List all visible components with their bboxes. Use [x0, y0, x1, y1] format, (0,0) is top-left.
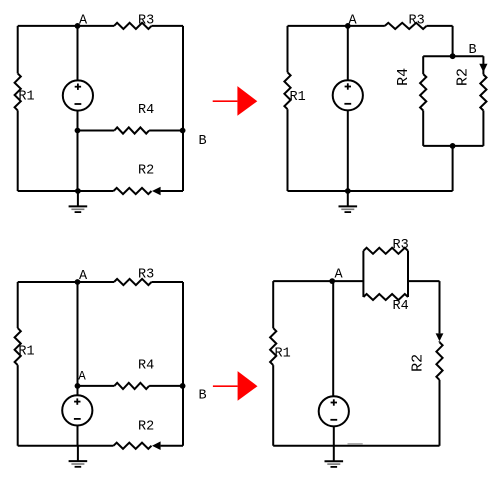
svg-text:B: B [199, 134, 207, 149]
svg-text:R1: R1 [275, 347, 291, 362]
svg-text:R3: R3 [409, 14, 425, 29]
svg-text:A: A [79, 269, 88, 284]
svg-text:R4: R4 [393, 299, 409, 314]
svg-text:A: A [335, 268, 344, 283]
svg-text:A: A [79, 13, 88, 28]
svg-text:R1: R1 [18, 90, 34, 105]
svg-text:R3: R3 [138, 268, 154, 283]
svg-text:R2: R2 [410, 354, 427, 372]
svg-text:R2: R2 [455, 68, 472, 86]
svg-text:A: A [349, 13, 358, 28]
svg-text:R4: R4 [138, 103, 154, 118]
svg-text:B: B [469, 43, 477, 58]
svg-text:A: A [78, 370, 86, 384]
svg-text:B: B [199, 389, 207, 404]
svg-text:R1: R1 [290, 90, 306, 105]
svg-text:R2: R2 [138, 164, 154, 179]
svg-text:R4: R4 [138, 359, 154, 374]
svg-text:R4: R4 [395, 68, 412, 86]
svg-text:R3: R3 [138, 13, 154, 28]
svg-text:R3: R3 [393, 238, 409, 253]
svg-text:R2: R2 [138, 420, 154, 435]
svg-text:R1: R1 [18, 345, 34, 360]
